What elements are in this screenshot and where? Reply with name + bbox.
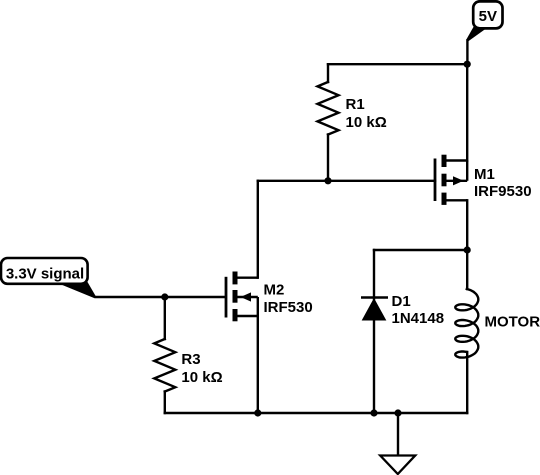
- 3.3V signal callout box: [1, 258, 88, 284]
- diode D1 cathode bar: [361, 296, 388, 299]
- wire top rail from R1 top to 5V tap: [328, 63, 467, 65]
- wire 5V tap drop: [466, 41, 468, 65]
- inductor MOTOR coil: [455, 289, 478, 358]
- wire motor bottom lead: [466, 352, 468, 413]
- transistor M1 IRF9530: [435, 155, 467, 205]
- M1 channel bar top: [442, 155, 447, 167]
- svg-text:R1: R1: [346, 96, 365, 113]
- wire D1 anode lead: [373, 320, 375, 414]
- svg-text:IRF530: IRF530: [264, 299, 313, 316]
- svg-text:R3: R3: [181, 351, 200, 368]
- M1 body arrow: [453, 176, 464, 185]
- node D1 anode on rail: [370, 409, 377, 416]
- M2 body stub: [237, 296, 258, 298]
- wire bottom rail: [165, 412, 467, 414]
- svg-text:M2: M2: [264, 282, 285, 299]
- svg-text:10 kΩ: 10 kΩ: [346, 114, 387, 131]
- M1 body stub: [446, 180, 467, 182]
- wire R1 top lead: [327, 64, 329, 82]
- wire M1 drain down to motor node: [466, 200, 468, 250]
- M2 channel bar top: [233, 272, 238, 285]
- 3.3V signal callout tail: [55, 282, 97, 298]
- svg-text:MOTOR: MOTOR: [485, 314, 540, 331]
- wire R1 bottom lead: [327, 135, 329, 181]
- node gate junction R1/M1: [324, 177, 331, 184]
- svg-text:1N4148: 1N4148: [392, 310, 445, 327]
- wire gate rail to M1: [258, 180, 435, 182]
- M1 source stub: [446, 159, 467, 161]
- resistor R3: [154, 339, 175, 392]
- svg-text:3.3V signal: 3.3V signal: [6, 266, 84, 283]
- svg-text:M1: M1: [474, 166, 495, 183]
- 5V callout tail: [466, 26, 487, 42]
- node motor/diode junction: [464, 246, 471, 253]
- M1 channel bar middle: [442, 174, 447, 187]
- M2 drain stub: [237, 277, 258, 279]
- ground symbol: [380, 456, 415, 475]
- M1 channel bar bottom: [442, 193, 447, 205]
- M2 channel bar middle: [233, 290, 238, 303]
- node signal/R3 junction: [161, 293, 168, 300]
- wire ground stub: [397, 413, 399, 456]
- transistor M2 IRF530: [226, 272, 258, 322]
- M2 channel bar bottom: [233, 309, 238, 321]
- node 5V junction: [464, 61, 471, 68]
- wire D1 cathode lead: [373, 250, 375, 299]
- svg-text:5V: 5V: [479, 8, 497, 25]
- wire M2 source drop: [257, 316, 259, 413]
- wire M2 drain riser: [257, 181, 259, 278]
- M2 gate plate: [225, 277, 228, 318]
- wire M1 source to 5V line: [466, 64, 468, 160]
- M2 source stub: [237, 315, 258, 317]
- M2 body-source tie: [257, 297, 259, 316]
- wire motor top lead: [466, 250, 468, 289]
- M2 body arrow: [241, 292, 252, 301]
- node ground tap: [394, 409, 401, 416]
- 5V callout box: [473, 1, 502, 28]
- node M2 source on rail: [254, 409, 261, 416]
- diode D1 body: [363, 299, 386, 320]
- M1 source-body tie: [466, 161, 468, 181]
- wire R3 top lead: [164, 297, 166, 339]
- wire diode branch horizontal: [374, 249, 467, 251]
- wire R3 bottom lead: [164, 392, 166, 414]
- wire signal lead to M2 gate: [96, 296, 225, 298]
- M1 gate plate: [434, 159, 437, 202]
- resistor R1: [318, 82, 339, 135]
- svg-text:10 kΩ: 10 kΩ: [181, 369, 222, 386]
- svg-text:D1: D1: [392, 293, 411, 310]
- M1 drain stub: [446, 199, 467, 201]
- svg-text:IRF9530: IRF9530: [474, 183, 532, 200]
